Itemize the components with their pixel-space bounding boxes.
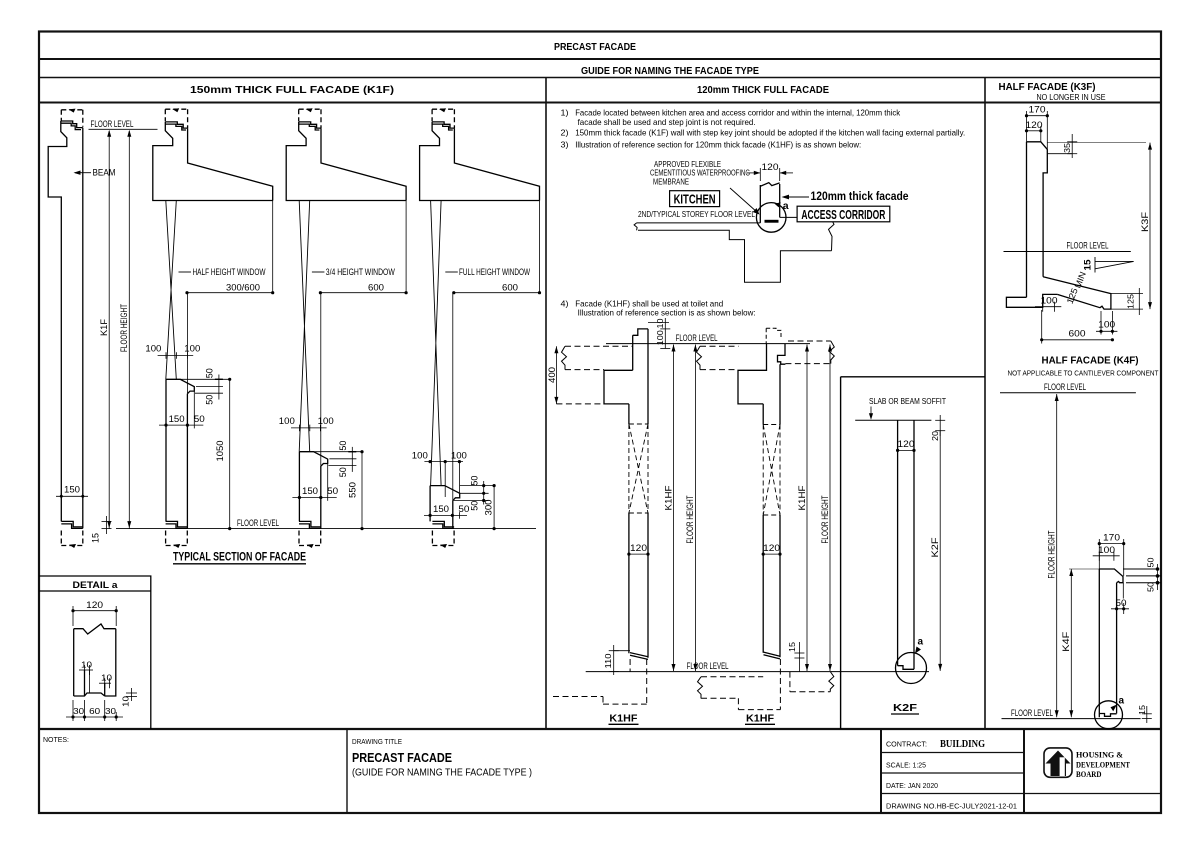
svg-text:400: 400 — [547, 367, 557, 383]
svg-text:DRAWING NO.HB-EC-JULY2021-12-0: DRAWING NO.HB-EC-JULY2021-12-01 — [886, 802, 1017, 811]
K3F sloped soffit — [1043, 277, 1111, 309]
K3F 15 slope symbol — [1095, 257, 1134, 273]
K1HF2 dashed slab left — [700, 346, 739, 369]
column divider left/middle — [545, 78, 547, 730]
svg-text:50: 50 — [1145, 557, 1155, 567]
K1HF1 dashed window X — [629, 424, 648, 513]
detail a 30/60/30 dims — [66, 700, 123, 721]
section C bottom joint — [299, 521, 321, 548]
section B 50/50 dims — [180, 375, 230, 400]
K1HF2 left slab break zigzag — [697, 346, 702, 369]
HDB logo box — [1044, 748, 1072, 777]
section B 150/50 dim — [159, 392, 203, 429]
svg-text:15: 15 — [1137, 705, 1147, 715]
BEAM label — [75, 172, 91, 174]
svg-text:K1HF: K1HF — [609, 714, 637, 725]
section D sill profile — [430, 486, 460, 501]
K4F wall profile — [1099, 569, 1123, 717]
svg-text:30: 30 — [105, 706, 116, 716]
K4F FLOOR HEIGHT dim — [1056, 394, 1058, 717]
svg-text:CONTRACT:: CONTRACT: — [886, 742, 927, 749]
K3F 600 dim — [1042, 310, 1113, 344]
svg-text:100: 100 — [145, 344, 161, 354]
joint membrane (black) at wall base — [765, 220, 779, 223]
svg-text:facade shall be used and step: facade shall be used and step joint is n… — [578, 117, 756, 127]
svg-text:NOTES:: NOTES: — [43, 737, 69, 744]
svg-text:K1F: K1F — [99, 318, 109, 336]
svg-text:50: 50 — [469, 501, 479, 511]
svg-text:35: 35 — [1062, 143, 1072, 153]
svg-text:50: 50 — [338, 467, 348, 477]
svg-text:50: 50 — [469, 476, 479, 486]
HALF HEIGHT WINDOW label — [179, 271, 192, 273]
KITCHEN box — [670, 191, 720, 207]
svg-text:FLOOR HEIGHT: FLOOR HEIGHT — [119, 304, 129, 352]
membrane leader arrow — [730, 188, 758, 213]
svg-text:100: 100 — [1041, 295, 1058, 305]
K1HF2 dashed window X — [763, 425, 780, 516]
svg-text:K1HF: K1HF — [663, 485, 673, 511]
K1HF2 bottom slab dashed — [701, 659, 830, 710]
svg-text:125: 125 — [1126, 294, 1136, 309]
svg-text:K1HF: K1HF — [797, 485, 807, 511]
svg-text:170: 170 — [1029, 105, 1046, 115]
K2F height dim — [939, 431, 941, 671]
K2F 120 dim — [898, 449, 914, 451]
svg-text:2ND/TYPICAL STOREY FLOOR LEVEL: 2ND/TYPICAL STOREY FLOOR LEVEL — [638, 210, 755, 219]
K4F 15 dim — [1142, 706, 1152, 723]
svg-text:KITCHEN: KITCHEN — [674, 193, 716, 207]
K1HF1 wall lower — [629, 513, 648, 658]
svg-text:100: 100 — [655, 330, 665, 345]
K1HF2 bottom sloped joint — [764, 652, 781, 659]
K1HF1 bottom sloped joint — [630, 653, 648, 660]
K3F height dim — [1149, 143, 1151, 310]
detail a frame — [39, 576, 151, 729]
title bar line 2 — [39, 77, 1161, 79]
section A dashed box below — [61, 531, 83, 546]
middle floor level line (bottom) — [586, 671, 929, 673]
middle floor level line (top) — [606, 343, 810, 345]
K1HF1 left slab step — [604, 370, 633, 404]
svg-text:100: 100 — [451, 451, 467, 461]
svg-text:APPROVED FLEXIBLE: APPROVED FLEXIBLE — [654, 160, 721, 169]
svg-text:150: 150 — [169, 414, 185, 424]
svg-text:170: 170 — [1103, 533, 1120, 543]
svg-text:FLOOR HEIGHT: FLOOR HEIGHT — [685, 495, 695, 543]
svg-text:ACCESS CORRIDOR: ACCESS CORRIDOR — [801, 208, 885, 222]
svg-text:GUIDE FOR NAMING THE FACADE TY: GUIDE FOR NAMING THE FACADE TYPE — [581, 65, 759, 77]
svg-text:50: 50 — [194, 414, 205, 424]
K2F detail circle a — [896, 653, 927, 684]
svg-text:15: 15 — [91, 533, 101, 543]
K1HF2 right step joint — [778, 344, 786, 364]
svg-text:150mm THICK FULL FACADE (K1F): 150mm THICK FULL FACADE (K1F) — [190, 84, 394, 96]
section C sill profile — [299, 452, 327, 466]
svg-text:100: 100 — [279, 416, 295, 426]
K4F 170 dim — [1099, 539, 1123, 576]
svg-text:NOT APPLICABLE TO CANTILEVER C: NOT APPLICABLE TO CANTILEVER COMPONENT — [1008, 369, 1159, 378]
kitchen floor line — [634, 217, 834, 282]
section D 100/100 dim — [424, 462, 463, 497]
section D 150/50 dim — [424, 512, 467, 519]
section B sill profile — [166, 379, 460, 528]
K1HF1 wall top — [633, 329, 648, 335]
svg-text:10: 10 — [101, 673, 112, 683]
svg-text:100: 100 — [318, 416, 334, 426]
K2F 20 dim — [935, 415, 945, 436]
svg-text:600: 600 — [368, 282, 384, 292]
svg-text:120: 120 — [630, 543, 647, 553]
bottom floor level line (left column) — [116, 528, 536, 530]
svg-text:600: 600 — [1069, 328, 1086, 338]
contract row lines — [881, 752, 1024, 754]
svg-text:BOARD: BOARD — [1076, 769, 1102, 779]
column divider middle/right — [984, 78, 986, 730]
K1HF2 dashed wall above floor — [766, 328, 781, 343]
K1HF2 left slab step — [738, 344, 767, 404]
svg-text:FLOOR LEVEL: FLOOR LEVEL — [91, 119, 134, 129]
detail circle a (kitchen) — [756, 203, 786, 233]
svg-text:10: 10 — [655, 318, 665, 328]
section A slab above (dashed) — [61, 110, 83, 127]
section C 100/100 dim — [291, 425, 327, 432]
K3F 35 dim — [1047, 134, 1077, 158]
section C window X — [299, 201, 310, 452]
svg-text:DEVELOPMENT: DEVELOPMENT — [1076, 760, 1130, 770]
svg-text:SLAB OR BEAM SOFFIT: SLAB OR BEAM SOFFIT — [869, 397, 946, 406]
svg-text:50: 50 — [205, 368, 215, 378]
svg-text:3/4 HEIGHT WINDOW: 3/4 HEIGHT WINDOW — [326, 267, 396, 277]
title block top line — [39, 728, 1161, 730]
svg-text:120: 120 — [86, 600, 103, 610]
K1HF2 bottom slab breaks — [698, 677, 703, 699]
150 dim (section A bottom) — [56, 493, 88, 500]
section A wall outline with beam bump — [48, 121, 67, 521]
svg-text:FLOOR LEVEL: FLOOR LEVEL — [1011, 708, 1053, 718]
svg-text:4): 4) — [561, 299, 569, 309]
svg-text:PRECAST FACADE: PRECAST FACADE — [352, 751, 452, 765]
K1HF1 slab break zigzag — [562, 346, 567, 369]
K4F bottom step — [1099, 714, 1116, 717]
K1HF1 10/100 top dims — [648, 318, 670, 349]
svg-text:DATE: JAN 2020: DATE: JAN 2020 — [886, 781, 938, 790]
svg-text:50: 50 — [1145, 582, 1155, 592]
svg-text:FLOOR LEVEL: FLOOR LEVEL — [1044, 382, 1086, 392]
svg-text:K3F: K3F — [1140, 211, 1150, 232]
svg-text:50: 50 — [327, 486, 338, 496]
title bar line 1 — [39, 58, 1161, 60]
svg-text:150: 150 — [302, 486, 318, 496]
K1HF2 wall — [763, 364, 780, 657]
K1HF1 110 dim — [609, 645, 630, 675]
K3F foot — [1006, 294, 1057, 307]
corridor slab break — [829, 217, 835, 250]
svg-text:60: 60 — [89, 706, 100, 716]
section A step joint top — [61, 121, 83, 130]
svg-text:(GUIDE FOR NAMING THE FACADE T: (GUIDE FOR NAMING THE FACADE TYPE ) — [352, 767, 532, 779]
svg-text:Facade located between kitchen: Facade located between kitchen area and … — [575, 107, 901, 117]
svg-text:15: 15 — [1083, 260, 1093, 271]
ACCESS CORRIDOR box — [797, 206, 890, 222]
slab underside profile — [638, 230, 832, 282]
svg-text:120: 120 — [763, 543, 780, 553]
svg-text:HALF HEIGHT WINDOW: HALF HEIGHT WINDOW — [193, 267, 267, 277]
section B window X — [166, 201, 441, 486]
K3F 120 dim — [1027, 126, 1041, 142]
K3F 125 dim (right) — [1111, 288, 1143, 315]
section C 550 dim — [361, 452, 363, 529]
K4F slab lines right — [1123, 569, 1161, 583]
detail a 10 dim right — [126, 688, 137, 701]
K1HF1 120 dim — [629, 553, 648, 555]
K2F soffit line — [855, 419, 931, 421]
K4F detail circle a — [1095, 701, 1123, 729]
svg-text:100: 100 — [412, 451, 428, 461]
K4F height dim — [1069, 569, 1099, 717]
svg-text:SCALE: 1:25: SCALE: 1:25 — [886, 761, 926, 770]
svg-text:Illustration of reference sect: Illustration of reference section for 12… — [575, 140, 861, 150]
kitchen detail wall (120mm facade) — [760, 183, 779, 223]
svg-text:FLOOR HEIGHT: FLOOR HEIGHT — [1047, 530, 1057, 578]
section B 1050 dim — [229, 379, 231, 528]
section D 300 dim — [493, 486, 495, 529]
detail a wall section — [74, 624, 116, 696]
svg-text:BUILDING: BUILDING — [940, 739, 985, 750]
svg-text:300/600: 300/600 — [226, 282, 260, 292]
svg-text:HOUSING &: HOUSING & — [1076, 750, 1123, 760]
K1HF1 K1HF dim — [673, 345, 675, 672]
svg-text:K4F: K4F — [1061, 631, 1071, 652]
K1HF2 FLOOR HEIGHT dim — [829, 345, 831, 672]
svg-text:BEAM: BEAM — [93, 168, 116, 178]
K1HF1 bottom slab dashed — [553, 659, 647, 704]
svg-text:15: 15 — [787, 642, 797, 652]
svg-text:PRECAST FACADE: PRECAST FACADE — [554, 41, 636, 53]
svg-text:50: 50 — [1116, 598, 1127, 608]
svg-text:50: 50 — [205, 395, 215, 405]
svg-text:FULL HEIGHT WINDOW: FULL HEIGHT WINDOW — [459, 267, 531, 277]
kitchen slab left break — [634, 223, 637, 230]
section B beam — [153, 108, 273, 200]
svg-text:CEMENTITIOUS WATERPROOFING: CEMENTITIOUS WATERPROOFING — [650, 169, 750, 178]
svg-text:1050: 1050 — [215, 441, 225, 462]
svg-text:3): 3) — [561, 140, 569, 150]
svg-text:FLOOR LEVEL: FLOOR LEVEL — [676, 333, 718, 343]
contract/logo divider — [1023, 729, 1025, 813]
section header bottom line — [39, 102, 1161, 104]
svg-text:50: 50 — [458, 504, 469, 514]
section C 150/50 dim — [292, 464, 336, 501]
svg-text:DRAWING TITLE: DRAWING TITLE — [352, 739, 402, 746]
svg-text:120: 120 — [1026, 120, 1043, 130]
svg-text:HALF FACADE (K4F): HALF FACADE (K4F) — [1042, 355, 1139, 367]
svg-text:20: 20 — [930, 431, 940, 441]
svg-text:100: 100 — [1098, 320, 1115, 330]
section B 100/100 dim — [158, 352, 194, 359]
svg-text:120mm THICK FULL FACADE: 120mm THICK FULL FACADE — [697, 84, 829, 96]
svg-text:DETAIL a: DETAIL a — [73, 580, 119, 591]
notes/title divider — [346, 729, 348, 813]
svg-text:TYPICAL SECTION OF FACADE: TYPICAL SECTION OF FACADE — [173, 552, 306, 564]
section A bottom step joint — [61, 521, 83, 528]
svg-text:10: 10 — [81, 660, 92, 670]
section D window X — [431, 201, 442, 486]
K1HF1 400 dim — [555, 346, 557, 404]
svg-text:a: a — [783, 200, 789, 212]
K1HF1 dashed slab left — [556, 346, 632, 404]
K4F 50 dim (notch) — [1111, 583, 1129, 614]
K3F 100 dim (foot) — [1035, 302, 1061, 312]
3/4 HEIGHT WINDOW label — [312, 271, 325, 273]
section C 50/50 dims — [314, 447, 362, 472]
svg-text:FLOOR LEVEL: FLOOR LEVEL — [687, 661, 729, 671]
svg-text:FLOOR HEIGHT: FLOOR HEIGHT — [820, 495, 830, 543]
svg-text:HALF FACADE (K3F): HALF FACADE (K3F) — [999, 81, 1096, 93]
K3F 100 dim (soffit end) — [1096, 311, 1117, 335]
svg-text:FLOOR LEVEL: FLOOR LEVEL — [1067, 240, 1109, 250]
svg-text:150: 150 — [64, 484, 80, 494]
detail a 10 dims — [79, 665, 111, 693]
K3F wall profile — [1006, 142, 1111, 309]
svg-text:K2F: K2F — [893, 703, 917, 714]
K1HF2 dashed slab right — [785, 341, 830, 364]
K1HF2 15 dim — [794, 642, 804, 672]
svg-text:a: a — [1119, 696, 1125, 707]
svg-text:a: a — [918, 637, 924, 648]
section B bottom joint — [166, 521, 188, 548]
corridor floor line — [780, 216, 831, 218]
section C beam — [286, 108, 406, 200]
svg-text:Illustration of reference sect: Illustration of reference section is as … — [578, 307, 756, 317]
section D beam — [420, 108, 540, 200]
K4F 100 dim — [1093, 551, 1120, 561]
K2F wall — [898, 420, 914, 669]
svg-text:600: 600 — [502, 282, 518, 292]
K1HF2 120 dim — [763, 553, 780, 555]
svg-text:300: 300 — [483, 500, 493, 516]
svg-text:100: 100 — [184, 344, 200, 354]
svg-text:1): 1) — [561, 107, 569, 117]
svg-text:120: 120 — [762, 162, 779, 172]
svg-text:MEMBRANE: MEMBRANE — [653, 177, 689, 186]
svg-text:10: 10 — [121, 696, 131, 707]
K1HF2 K1HF dim — [806, 345, 808, 672]
svg-text:120: 120 — [898, 439, 915, 449]
section D 50/50 dims — [454, 481, 495, 505]
15 dim (section A bottom) — [102, 516, 112, 534]
svg-text:150mm thick facade (K1F) wall: 150mm thick facade (K1F) wall with step … — [575, 127, 965, 137]
K1F height dim line — [109, 131, 129, 529]
svg-text:FLOOR LEVEL: FLOOR LEVEL — [237, 518, 279, 528]
HDB logo arrow — [1046, 751, 1071, 777]
K1HF2 right slab break zigzag — [829, 341, 834, 364]
svg-text:50: 50 — [338, 441, 348, 451]
svg-text:NO LONGER IN USE: NO LONGER IN USE — [1037, 93, 1106, 102]
svg-text:2): 2) — [561, 127, 569, 137]
svg-text:K2F: K2F — [930, 537, 940, 558]
svg-text:550: 550 — [348, 482, 358, 498]
svg-text:110: 110 — [603, 653, 613, 668]
svg-text:K1HF: K1HF — [746, 714, 774, 725]
svg-text:30: 30 — [73, 706, 84, 716]
svg-text:100: 100 — [1098, 545, 1115, 555]
K1HF1 FLOOR HEIGHT dim — [694, 345, 696, 672]
title/contract divider — [880, 729, 882, 813]
svg-text:150: 150 — [433, 504, 449, 514]
svg-text:120mm thick facade: 120mm thick facade — [811, 189, 909, 203]
section D bottom joint — [432, 521, 454, 548]
K3F 170 dim — [1027, 111, 1048, 149]
FULL HEIGHT WINDOW label — [445, 271, 458, 273]
K4F 50/50 dims right — [1157, 564, 1159, 590]
